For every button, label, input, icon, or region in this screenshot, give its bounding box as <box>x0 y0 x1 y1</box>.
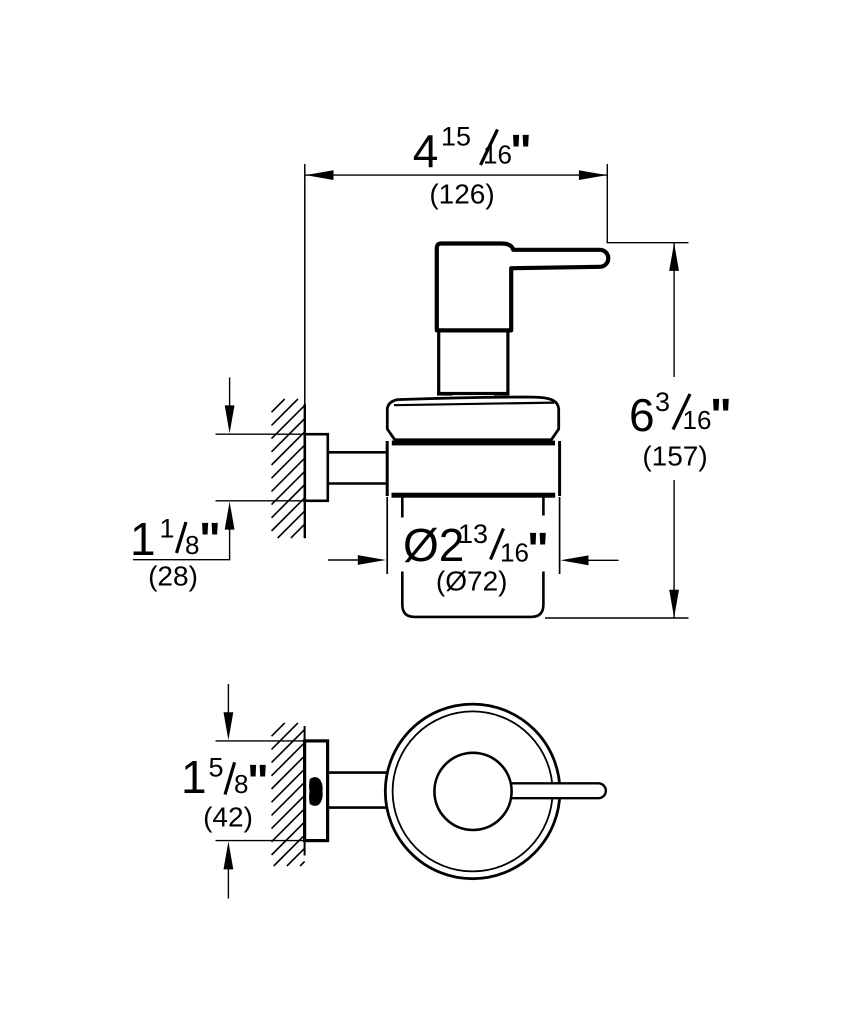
svg-text:": " <box>199 513 221 565</box>
dim 28 bottom extension line <box>216 500 304 502</box>
dim 42 top arrow <box>227 684 229 714</box>
dim text 1 5/8" <box>181 751 269 833</box>
dia 72 right arrow <box>578 559 619 561</box>
mounting screw (section blob) <box>309 777 323 806</box>
dim line 126 <box>306 174 607 176</box>
svg-text:4: 4 <box>413 125 439 177</box>
dim 28 top arrow <box>229 378 231 409</box>
svg-text:": " <box>247 755 269 807</box>
svg-text:15: 15 <box>441 122 471 152</box>
dia 72 right extension line <box>559 497 561 574</box>
svg-text:1: 1 <box>160 513 175 543</box>
dim 28 top extension line <box>216 433 304 435</box>
wall hatching (bottom view) <box>272 723 305 866</box>
svg-text:5: 5 <box>209 752 224 782</box>
dim 42 bottom arrow <box>224 841 234 869</box>
dim text Ø2 13/16" <box>403 519 549 597</box>
dim line 157 (two segments w/ text gap) <box>673 243 675 377</box>
wall hatching (top view) <box>272 399 305 538</box>
svg-text:3: 3 <box>655 387 670 417</box>
neck seal wedge right <box>494 392 510 396</box>
svg-text:16: 16 <box>500 538 529 568</box>
svg-text:16: 16 <box>683 405 712 435</box>
dia 72 left arrow <box>328 559 360 561</box>
bracket arm (bottom view) <box>328 771 392 774</box>
dim 42 top extension line <box>216 740 304 742</box>
svg-text:16: 16 <box>483 140 512 170</box>
svg-text:(Ø72): (Ø72) <box>436 566 508 597</box>
dim 157 top extension line <box>607 242 689 244</box>
dim text 6 3/16" <box>629 387 732 472</box>
bracket flange (bottom view) <box>305 741 328 841</box>
holder ring left edge <box>386 441 389 496</box>
pump lever (bottom view) <box>505 783 606 798</box>
svg-text:(28): (28) <box>148 561 198 592</box>
svg-text:8: 8 <box>185 530 199 560</box>
inner circle (glass inner rim) <box>393 711 553 871</box>
glass container body (broken lines around text) <box>402 498 543 617</box>
dim 126 right extension line <box>606 164 608 243</box>
dim text 4 15/16" <box>413 122 532 210</box>
dia 72 left extension line <box>386 497 388 574</box>
svg-text:13: 13 <box>458 519 488 549</box>
svg-text:Ø2: Ø2 <box>403 519 464 571</box>
dim 42 bottom extension line <box>216 840 304 842</box>
neck seal wedge left <box>437 392 453 396</box>
outer circle (glass rim, bottom view) <box>385 704 560 879</box>
wall face line (bottom view) <box>304 726 306 856</box>
pump head and spout <box>437 244 608 331</box>
svg-text:1: 1 <box>181 751 207 803</box>
wall face line (top view) <box>304 164 306 406</box>
svg-text:(157): (157) <box>642 441 707 472</box>
svg-text:": " <box>527 523 549 575</box>
glass shoulder dome <box>387 397 558 440</box>
svg-text:": " <box>510 125 532 177</box>
svg-text:": " <box>710 389 732 441</box>
pump head circle (bottom view) <box>434 753 511 830</box>
svg-text:(42): (42) <box>203 802 253 833</box>
svg-text:6: 6 <box>629 389 655 441</box>
holder ring fill <box>389 444 558 493</box>
dim 28 bottom arrow + leader <box>225 502 235 530</box>
shadow band above ring <box>392 441 555 446</box>
bracket arm (top view) <box>328 451 387 454</box>
pump neck <box>439 330 508 394</box>
dim text 1 1/8" <box>130 513 221 592</box>
dome seam line <box>394 403 555 406</box>
svg-text:1: 1 <box>130 513 156 565</box>
holder ring right edge <box>558 441 561 496</box>
shadow band below ring <box>392 493 556 498</box>
svg-text:(126): (126) <box>429 179 494 210</box>
dim 157 bottom extension line <box>545 617 689 619</box>
bracket flange (top view) <box>305 434 328 501</box>
